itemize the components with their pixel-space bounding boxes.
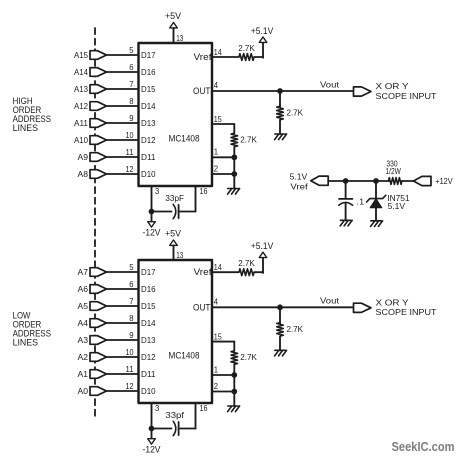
svg-text:4: 4 [214,297,219,307]
power -12V (U2) [143,429,161,455]
pin 15 label U2 [214,331,222,341]
svg-text:14: 14 [214,262,222,272]
svg-text:10: 10 [126,347,134,357]
wire pin 16 U1 [195,186,197,212]
wire pin 3 U2 [151,403,153,429]
power +12V terminal [414,176,453,186]
svg-text:16: 16 [200,186,208,196]
pin 6 label U2 [129,279,134,289]
wire A2 to D12 [107,356,139,358]
svg-text:16: 16 [200,403,208,413]
svg-text:A9: A9 [78,152,89,162]
svg-text:X OR Y: X OR Y [376,81,409,91]
input terminal A12 [74,101,107,111]
pin 8 label U1 [129,96,134,106]
IC U1 MC1408 [139,43,213,186]
svg-text:9: 9 [129,330,134,340]
label Vout U1 [320,79,340,89]
capacitor C2 .1 [339,181,365,220]
svg-text:D12: D12 [141,352,156,362]
pin 11 label U2 [126,364,134,374]
svg-text:+5.1V: +5.1V [251,26,274,36]
svg-text:A1: A1 [78,369,89,379]
svg-text:Vref: Vref [194,267,213,277]
ground (cap) [340,220,352,226]
wire pin 15 U2 [212,342,234,351]
input terminal A1 [78,369,107,379]
resistor R6 2.7K (Vout load) [277,307,304,350]
pin 14 label U1 [214,47,222,57]
svg-text:6: 6 [129,62,134,72]
svg-text:2.7K: 2.7K [238,258,255,268]
svg-text:D11: D11 [141,152,156,162]
node pin 3 cap junction U2 [149,426,155,432]
svg-text:D10: D10 [141,169,156,179]
svg-text:D15: D15 [141,301,156,311]
wire A0 to D10 [107,390,139,392]
svg-text:D14: D14 [141,318,156,328]
pin 9 label U1 [129,113,134,123]
resistor R4 330 1/2W [386,159,402,185]
svg-text:MC1408: MC1408 [169,351,200,361]
svg-text:1/2W: 1/2W [386,166,402,176]
pin 4 label U1 [214,80,219,90]
svg-text:MC1408: MC1408 [169,134,200,144]
node pin 3 cap junction U1 [149,209,155,215]
svg-text:5: 5 [129,262,134,272]
wire Vref rail [328,180,413,182]
resistor R5 2.7K (Vref pullup) [238,258,255,276]
svg-text:Vref: Vref [290,181,308,191]
wire A10 to D12 [107,139,139,141]
svg-text:-12V: -12V [143,444,161,454]
svg-text:Vout: Vout [320,79,340,89]
svg-text:15: 15 [214,331,222,341]
wire A3 to D13 [107,339,139,341]
wire pin 3 U1 [151,186,153,212]
wire pin 2 U2 [212,375,234,406]
IC U2 MC1408 [139,260,213,403]
input terminal A5 [78,301,107,311]
svg-text:D11: D11 [141,369,156,379]
svg-text:A7: A7 [78,267,89,277]
svg-text:X OR Y: X OR Y [376,298,409,308]
svg-text:A15: A15 [74,50,88,60]
svg-text:33pf: 33pf [165,410,184,420]
wire pin 14 Vref U2 [212,258,263,273]
pin 2 label U1 [214,163,219,173]
resistor R1 2.7K (Vref pullup) [238,43,255,61]
svg-text:6: 6 [129,279,134,289]
wire pin 16 U2 [195,403,197,429]
svg-text:A8: A8 [78,169,89,179]
resistor R2 2.7K (Vout load) [277,91,304,134]
svg-text:Vout: Vout [320,296,340,306]
pin 6 label U1 [129,62,134,72]
label HIGH ORDER ADDRESS LINES [13,95,51,133]
svg-text:D15: D15 [141,84,156,94]
power +5V (pin 13 U2) [165,229,181,246]
svg-text:2: 2 [214,163,219,173]
input terminal A7 [78,267,107,277]
svg-text:A4: A4 [78,318,89,328]
input terminal A6 [78,284,107,294]
pin 8 label U2 [129,313,134,323]
svg-text:A11: A11 [74,118,88,128]
resistor R3 2.7K (pin 15 to pin 1) [231,133,257,157]
pin 7 label U1 [129,79,134,89]
svg-text:-12V: -12V [143,227,161,237]
wire A9 to D11 [107,156,139,158]
wire OUT to scope U2 [212,306,354,308]
svg-text:A12: A12 [74,101,88,111]
svg-text:Vref: Vref [194,52,213,62]
svg-text:12: 12 [126,381,134,391]
pin 3 label U2 [155,403,160,413]
input terminal A2 [78,352,107,362]
svg-text:2: 2 [214,381,219,391]
svg-text:10: 10 [126,130,134,140]
svg-text:+12V: +12V [435,176,453,186]
svg-text:5.1V: 5.1V [388,201,406,211]
ground (Vout load U2) [275,350,287,356]
svg-text:D14: D14 [141,101,156,111]
wire pin 2 U1 [212,157,234,188]
svg-text:11: 11 [126,364,134,374]
svg-text:D17: D17 [141,267,156,277]
svg-text:LINES: LINES [13,122,38,133]
capacitor C1 33pF (pins 3-16) [152,193,196,219]
pin 14 label U2 [214,262,222,272]
svg-text:+5V: +5V [165,11,181,21]
svg-text:D10: D10 [141,386,156,396]
svg-text:D16: D16 [141,284,156,294]
wire A1 to D11 [107,373,139,375]
svg-text:8: 8 [129,96,134,106]
pin 5 label U2 [129,262,134,272]
pin 9 label U2 [129,330,134,340]
svg-text:D13: D13 [141,118,156,128]
output terminal X OR Y SCOPE INPUT (U1) [354,81,438,101]
wire A7 to D17 [107,271,139,273]
input terminal A14 [74,67,107,77]
svg-text:15: 15 [214,114,222,124]
input terminal A15 [74,50,107,60]
wire pin 14 Vref U1 [212,42,263,57]
svg-text:5: 5 [129,45,134,55]
svg-text:3: 3 [155,186,160,196]
input terminal A9 [78,152,107,162]
input terminal A0 [78,386,107,396]
pin 11 label U1 [126,147,134,157]
wire pin 1 U1 [212,156,234,158]
svg-text:SCOPE INPUT: SCOPE INPUT [376,91,438,101]
output terminal X OR Y SCOPE INPUT (U2) [354,298,438,318]
svg-text:A0: A0 [78,386,89,396]
pin 1 label U1 [214,147,219,157]
power +5V (pin 13 U1) [165,11,181,28]
svg-text:14: 14 [214,47,222,57]
power +5.1V (U1) [251,26,274,42]
node pin 1 U1 [231,154,237,160]
svg-text:A10: A10 [74,135,88,145]
svg-text:+5V: +5V [165,229,181,239]
power +5.1V (U2) [251,241,274,257]
svg-text:5.1V: 5.1V [290,171,308,181]
input terminal A4 [78,318,107,328]
node pin 1 U2 [231,372,237,378]
pin 13 label U2 [176,250,183,260]
wire A5 to D15 [107,305,139,307]
svg-text:33pF: 33pF [165,193,184,203]
pin 10 label U1 [126,130,134,140]
pin 1 label U2 [214,364,219,374]
pin 13 label U1 [176,33,183,43]
svg-text:A5: A5 [78,301,89,311]
node pin 2 U2 [231,389,237,395]
address bus dashed line [94,28,96,417]
svg-text:2.7K: 2.7K [240,135,257,145]
svg-text:+5.1V: +5.1V [251,241,274,251]
svg-text:A3: A3 [78,335,89,345]
svg-text:2.7K: 2.7K [238,43,255,53]
svg-text:2.7K: 2.7K [287,324,304,334]
label Vout U2 [320,296,340,306]
svg-text:OUT: OUT [193,86,211,96]
wire A8 to D10 [107,173,139,175]
node Vout junction U1 [277,88,283,94]
zener diode D1 1N751 5.1V [367,181,410,221]
node zener [373,178,379,184]
wire pin 15 U1 [212,124,234,133]
svg-text:1: 1 [214,364,219,374]
svg-text:D13: D13 [141,335,156,345]
svg-text:9: 9 [129,113,134,123]
wire A4 to D14 [107,322,139,324]
svg-text:OUT: OUT [193,302,211,312]
ground (pins 1,2 U2) [228,406,240,412]
svg-text:SCOPE INPUT: SCOPE INPUT [376,307,438,317]
wire A15 to D17 [107,54,139,56]
pin 16 label U2 [200,403,208,413]
output terminal 5.1V Vref [290,171,329,191]
wire A13 to D15 [107,88,139,90]
pin 5 label U1 [129,45,134,55]
pin 12 label U2 [126,381,134,391]
node filter cap [343,178,349,184]
pin 2 label U2 [214,381,219,391]
power -12V (U1) [143,212,161,238]
capacitor C3 33pf (pins 3-16) [152,410,196,436]
svg-text:2.7K: 2.7K [240,352,257,362]
svg-text:13: 13 [176,33,183,43]
svg-text:A2: A2 [78,352,89,362]
svg-text:LINES: LINES [13,337,38,348]
svg-text:4: 4 [214,80,219,90]
svg-text:11: 11 [126,147,134,157]
wire pin 1 U2 [212,374,234,376]
svg-text:A6: A6 [78,284,89,294]
svg-text:D16: D16 [141,67,156,77]
pin 10 label U2 [126,347,134,357]
node Vout junction U2 [277,304,283,310]
svg-text:A13: A13 [74,84,88,94]
pin 3 label U1 [155,186,160,196]
input terminal A8 [78,169,107,179]
wire A6 to D16 [107,288,139,290]
pin 12 label U1 [126,164,134,174]
resistor R7 2.7K (pin 15 to pin 1) [231,351,257,375]
input terminal A13 [74,84,107,94]
ground (Vout load U1) [275,134,287,140]
wire pin 13 U1 [173,28,175,43]
wire A11 to D13 [107,122,139,124]
svg-text:3: 3 [155,403,160,413]
watermark [392,439,455,454]
pin 7 label U2 [129,296,134,306]
input terminal A10 [74,135,107,145]
label LOW ORDER ADDRESS LINES [13,310,51,348]
svg-text:SeekIC.com: SeekIC.com [392,439,455,454]
svg-text:1: 1 [214,147,219,157]
svg-text:2.7K: 2.7K [287,108,304,118]
svg-text:A14: A14 [74,67,88,77]
svg-text:7: 7 [129,296,134,306]
svg-text:7: 7 [129,79,134,89]
ground (zener) [371,221,383,227]
svg-text:8: 8 [129,313,134,323]
svg-text:13: 13 [176,250,183,260]
wire OUT to scope U1 [212,90,354,92]
pin 16 label U1 [200,186,208,196]
node pin 2 U1 [231,171,237,177]
svg-text:.1: .1 [357,197,365,207]
input terminal A11 [74,118,107,128]
svg-text:D12: D12 [141,135,156,145]
pin 15 label U1 [214,114,222,124]
ground (pins 1,2 U1) [228,189,240,195]
svg-text:D17: D17 [141,50,156,60]
pin 4 label U2 [214,297,219,307]
wire pin 13 U2 [173,245,175,260]
wire A14 to D16 [107,71,139,73]
svg-text:12: 12 [126,164,134,174]
input terminal A3 [78,335,107,345]
wire A12 to D14 [107,105,139,107]
